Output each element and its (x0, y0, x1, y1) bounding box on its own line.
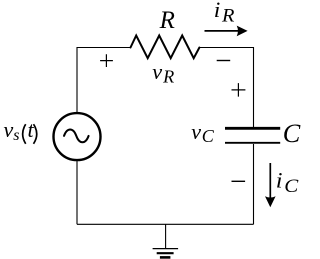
wire: top-right horizontal segment (199, 47, 253, 49)
resistor R (131, 36, 200, 59)
wire: right side lower vertical (253, 144, 255, 224)
svg-text:t: t (28, 117, 35, 142)
polarity plus (above capacitor) (232, 83, 246, 97)
current arrow i_R (205, 30, 240, 32)
wire: left side lower vertical (76, 160, 78, 224)
wire: right side upper vertical (253, 47, 255, 127)
sine wave inside source (64, 130, 89, 143)
polarity plus (left of resistor) (100, 54, 113, 67)
ground bar 3 (160, 256, 171, 259)
wire: top-left horizontal segment (77, 47, 131, 49)
polarity minus (below capacitor) (232, 180, 246, 182)
capacitor C plates (225, 127, 280, 130)
polarity minus (right of resistor) (217, 60, 231, 62)
ground bar 1 (153, 248, 179, 250)
svg-text:R: R (159, 7, 175, 34)
ground bar 2 (157, 252, 174, 254)
ground stem (165, 224, 167, 248)
wire: bottom horizontal (77, 223, 254, 225)
wire: left side upper vertical (76, 47, 78, 113)
svg-text:C: C (283, 119, 301, 148)
current arrow i_C (269, 163, 271, 199)
voltage source circle (54, 113, 101, 160)
